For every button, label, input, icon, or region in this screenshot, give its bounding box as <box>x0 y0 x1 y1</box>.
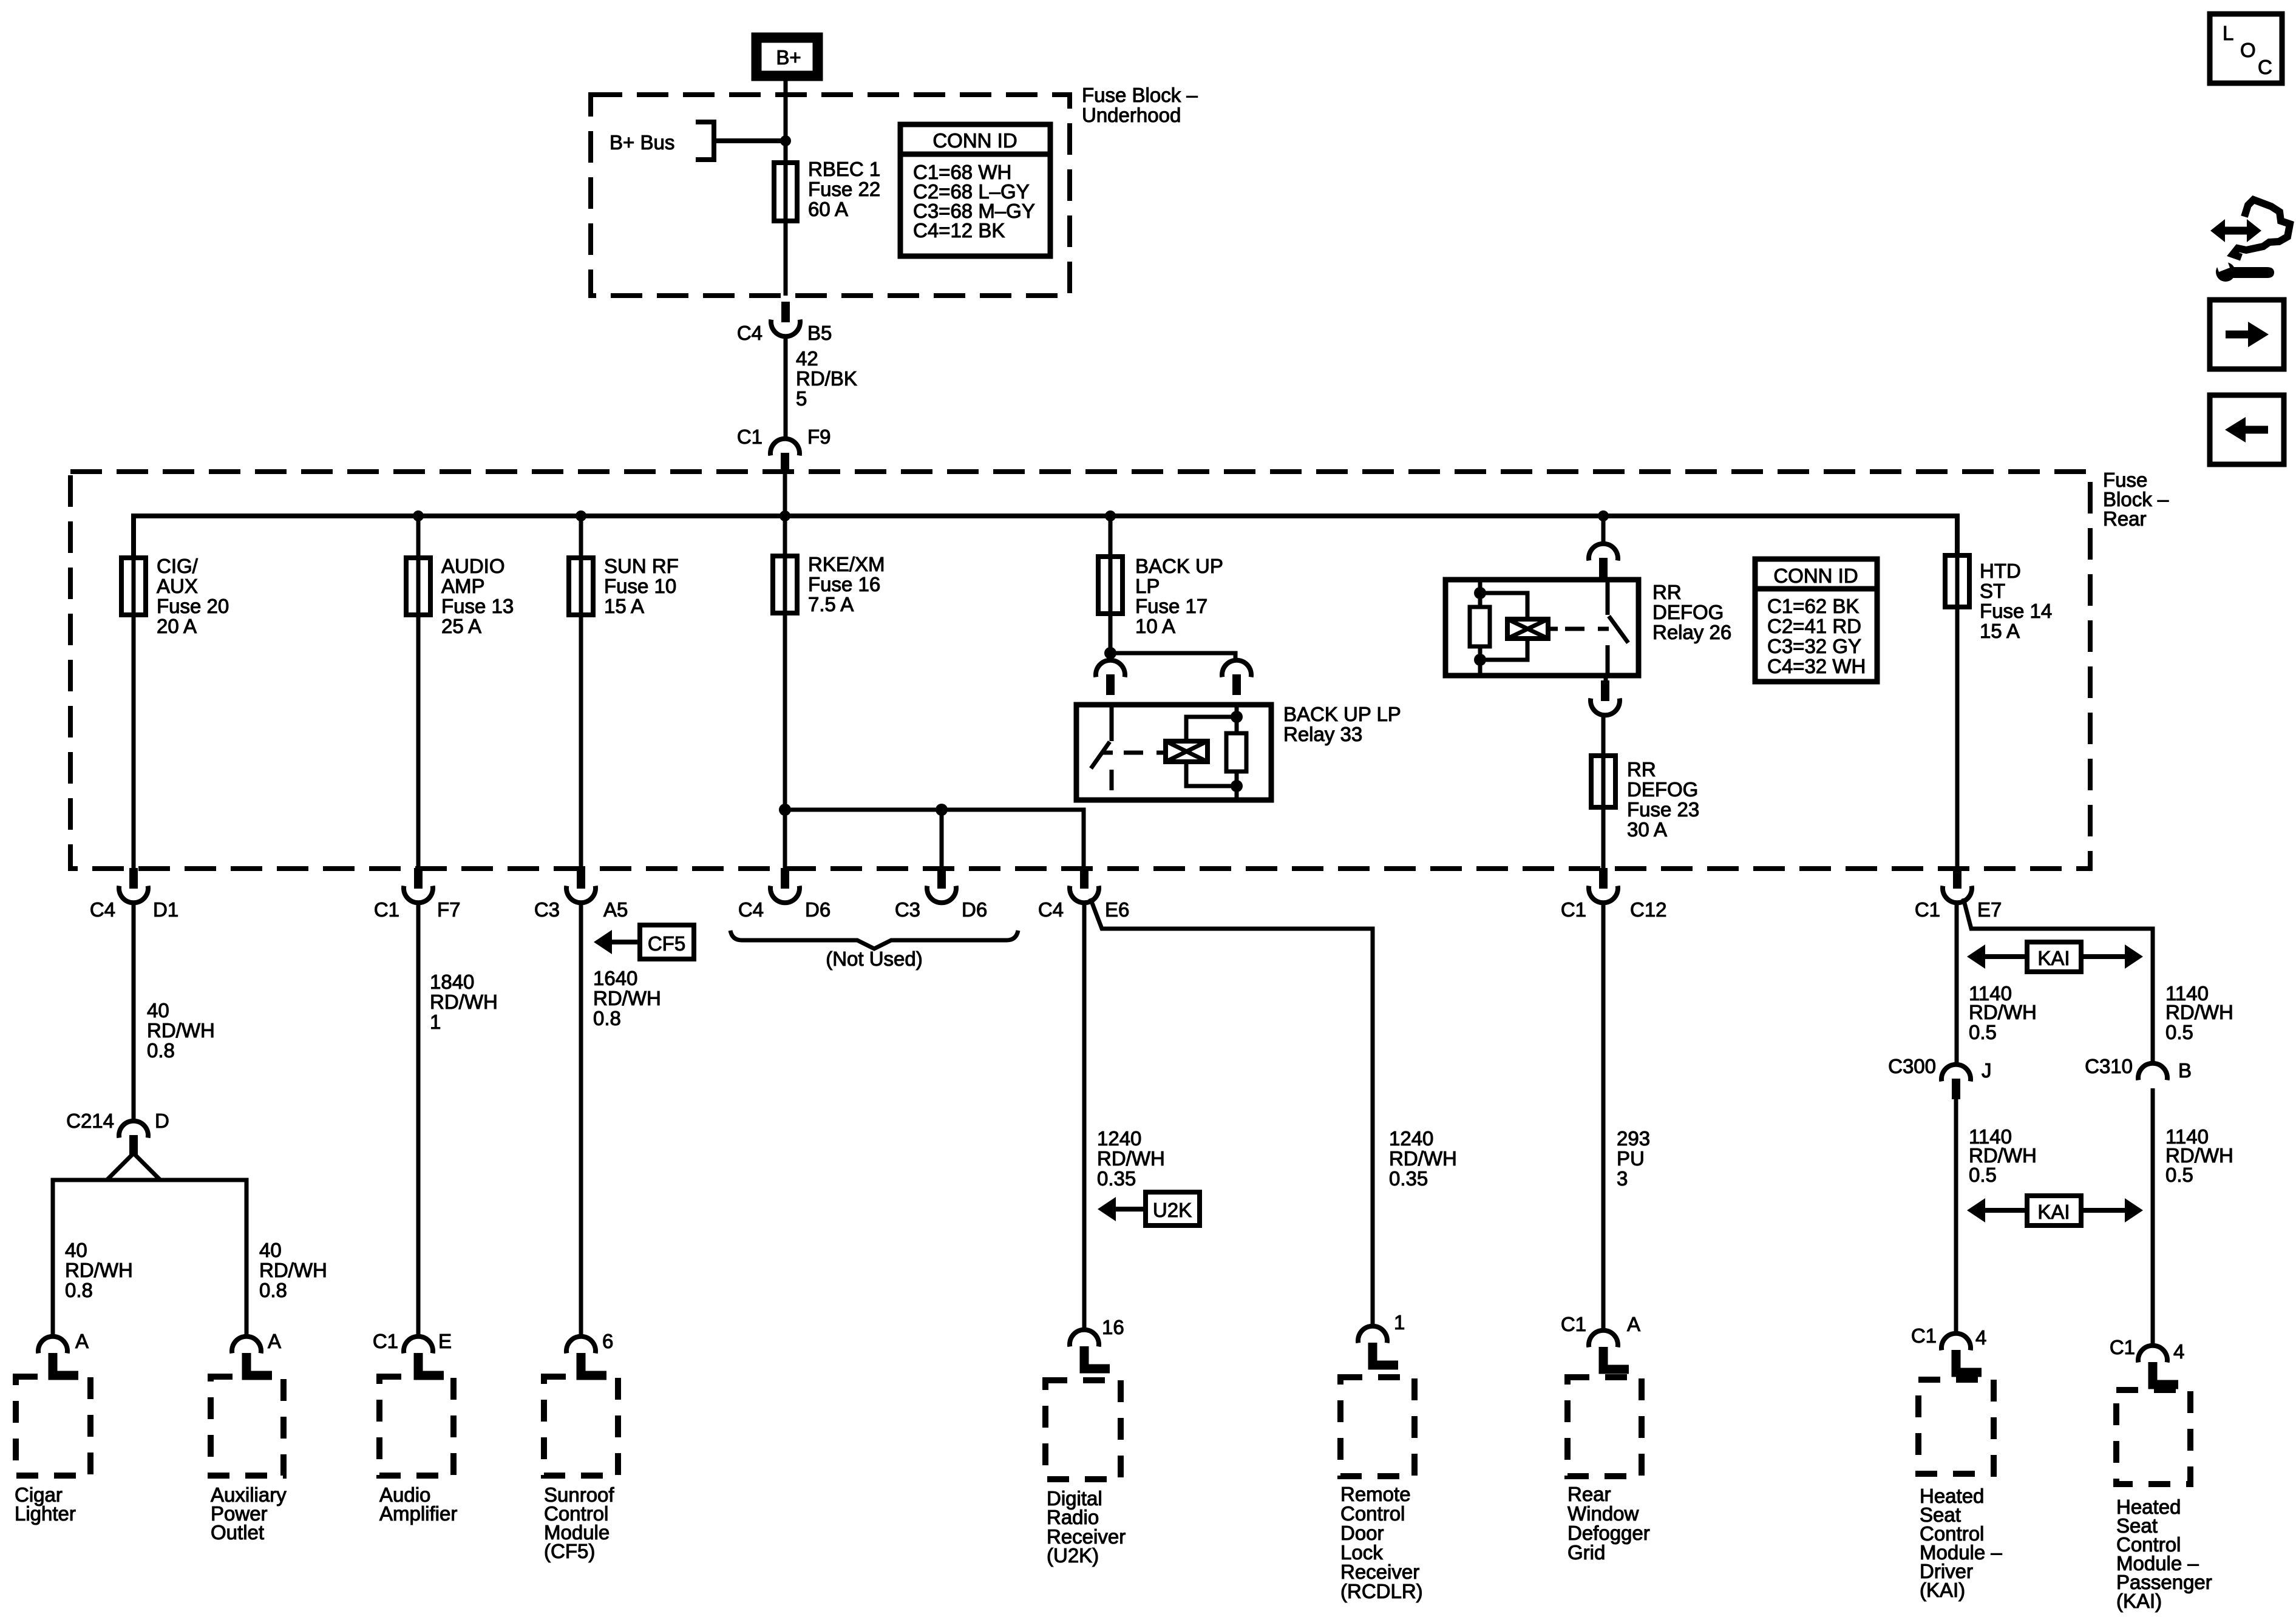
svg-text:AUDIO: AUDIO <box>441 555 505 577</box>
svg-text:KAI: KAI <box>2037 947 2070 969</box>
svg-text:Fuse 16: Fuse 16 <box>808 573 880 595</box>
svg-text:PU: PU <box>1617 1147 1645 1170</box>
svg-text:Fuse 23: Fuse 23 <box>1627 798 1699 821</box>
svg-text:RD/WH: RD/WH <box>259 1259 327 1281</box>
svg-text:HTD: HTD <box>1980 560 2021 582</box>
svg-text:AMP: AMP <box>441 575 485 597</box>
svg-text:ST: ST <box>1980 580 2005 602</box>
svg-text:7.5 A: 7.5 A <box>808 593 854 615</box>
svg-text:CONN ID: CONN ID <box>932 129 1017 152</box>
svg-text:A: A <box>75 1330 89 1352</box>
svg-text:A: A <box>268 1330 281 1352</box>
svg-text:Relay 26: Relay 26 <box>1652 621 1731 643</box>
svg-text:Fuse 13: Fuse 13 <box>441 595 514 617</box>
svg-text:3: 3 <box>1617 1167 1628 1190</box>
svg-text:RD/WH: RD/WH <box>430 991 498 1013</box>
svg-text:Grid: Grid <box>1567 1541 1605 1564</box>
svg-text:C1=62 BK: C1=62 BK <box>1767 595 1859 617</box>
svg-text:C4=12 BK: C4=12 BK <box>913 219 1005 242</box>
svg-text:E: E <box>438 1330 452 1352</box>
svg-text:15 A: 15 A <box>604 595 644 617</box>
svg-text:(RCDLR): (RCDLR) <box>1340 1580 1423 1602</box>
svg-text:5: 5 <box>796 387 807 410</box>
svg-text:0.8: 0.8 <box>147 1039 175 1062</box>
svg-text:Fuse 20: Fuse 20 <box>157 595 229 617</box>
svg-text:Fuse Block –: Fuse Block – <box>1082 84 1198 106</box>
svg-text:C300: C300 <box>1888 1055 1936 1077</box>
svg-text:D: D <box>155 1110 169 1132</box>
svg-text:Fuse 10: Fuse 10 <box>604 575 676 597</box>
svg-text:B+ Bus: B+ Bus <box>610 131 674 154</box>
svg-text:4: 4 <box>2173 1340 2184 1363</box>
svg-text:C1: C1 <box>1561 898 1586 921</box>
svg-text:(KAI): (KAI) <box>2116 1590 2162 1612</box>
svg-text:C1: C1 <box>1911 1324 1937 1347</box>
svg-text:RD/WH: RD/WH <box>2165 1001 2233 1023</box>
svg-text:1240: 1240 <box>1097 1127 1141 1150</box>
svg-text:RD/WH: RD/WH <box>1969 1001 2037 1023</box>
svg-text:L: L <box>2223 22 2233 44</box>
svg-text:C1: C1 <box>1915 898 1940 921</box>
svg-text:RBEC 1: RBEC 1 <box>808 158 880 180</box>
svg-text:RD/WH: RD/WH <box>147 1019 215 1042</box>
svg-text:0.5: 0.5 <box>1969 1164 1997 1186</box>
svg-text:A5: A5 <box>603 898 628 921</box>
svg-text:C4=32 WH: C4=32 WH <box>1767 655 1866 677</box>
svg-text:C4: C4 <box>737 322 763 344</box>
svg-text:Underhood: Underhood <box>1082 104 1181 126</box>
svg-text:Rear: Rear <box>2103 507 2147 530</box>
svg-text:AUX: AUX <box>157 575 198 597</box>
svg-text:C4: C4 <box>738 898 764 921</box>
svg-text:4: 4 <box>1975 1326 1986 1349</box>
svg-text:0.8: 0.8 <box>65 1279 93 1301</box>
svg-text:C1: C1 <box>373 1330 398 1352</box>
svg-text:C1: C1 <box>374 898 399 921</box>
svg-text:D1: D1 <box>153 898 178 921</box>
svg-text:25 A: 25 A <box>441 615 481 637</box>
svg-text:D6: D6 <box>962 898 987 921</box>
svg-text:RD/WH: RD/WH <box>593 987 661 1009</box>
svg-text:BACK UP: BACK UP <box>1135 555 1223 577</box>
svg-text:A: A <box>1627 1313 1640 1335</box>
svg-text:DEFOG: DEFOG <box>1627 778 1698 801</box>
svg-text:1: 1 <box>1394 1311 1405 1334</box>
svg-text:C214: C214 <box>66 1110 114 1132</box>
svg-text:40: 40 <box>259 1239 282 1261</box>
svg-text:C1: C1 <box>737 425 763 448</box>
svg-text:F7: F7 <box>437 898 461 921</box>
svg-text:RR: RR <box>1652 581 1682 603</box>
svg-text:(U2K): (U2K) <box>1047 1544 1099 1567</box>
svg-text:BACK UP LP: BACK UP LP <box>1283 703 1401 725</box>
svg-text:Outlet: Outlet <box>211 1521 264 1544</box>
svg-text:E6: E6 <box>1105 898 1129 921</box>
svg-text:KAI: KAI <box>2037 1201 2070 1223</box>
svg-text:C4: C4 <box>1038 898 1064 921</box>
svg-text:40: 40 <box>65 1239 87 1261</box>
svg-text:RD/WH: RD/WH <box>1389 1147 1457 1170</box>
svg-text:C1: C1 <box>2110 1336 2135 1358</box>
svg-text:B: B <box>2178 1059 2192 1082</box>
svg-text:C3: C3 <box>895 898 920 921</box>
svg-text:C310: C310 <box>2085 1055 2133 1077</box>
svg-text:42: 42 <box>796 347 818 370</box>
svg-text:293: 293 <box>1617 1127 1650 1150</box>
svg-text:Fuse 17: Fuse 17 <box>1135 595 1207 617</box>
svg-text:15 A: 15 A <box>1980 620 2020 642</box>
svg-text:CONN ID: CONN ID <box>1773 564 1858 587</box>
svg-text:B+: B+ <box>776 46 801 69</box>
svg-text:C4: C4 <box>90 898 115 921</box>
svg-text:RD/WH: RD/WH <box>65 1259 133 1281</box>
svg-text:C: C <box>2258 56 2272 78</box>
svg-text:C12: C12 <box>1630 898 1667 921</box>
svg-text:RR: RR <box>1627 758 1656 781</box>
svg-text:0.8: 0.8 <box>593 1007 621 1029</box>
svg-text:C2=41 RD: C2=41 RD <box>1767 615 1861 637</box>
svg-text:1240: 1240 <box>1389 1127 1433 1150</box>
svg-text:Relay 33: Relay 33 <box>1283 723 1362 745</box>
svg-text:J: J <box>1982 1059 1992 1082</box>
svg-text:Fuse 14: Fuse 14 <box>1980 600 2052 622</box>
svg-text:60 A: 60 A <box>808 198 848 220</box>
svg-text:6: 6 <box>602 1330 613 1352</box>
svg-text:1640: 1640 <box>593 967 637 989</box>
svg-text:Amplifier: Amplifier <box>379 1502 457 1525</box>
svg-text:RKE/XM: RKE/XM <box>808 553 885 575</box>
svg-text:10 A: 10 A <box>1135 615 1175 637</box>
svg-text:C3: C3 <box>534 898 560 921</box>
svg-text:1: 1 <box>430 1011 441 1033</box>
svg-text:(KAI): (KAI) <box>1920 1579 1965 1601</box>
svg-text:RD/BK: RD/BK <box>796 367 857 390</box>
svg-text:(Not Used): (Not Used) <box>826 947 923 970</box>
svg-text:LP: LP <box>1135 575 1160 597</box>
svg-text:E7: E7 <box>1977 898 2002 921</box>
svg-text:CIG/: CIG/ <box>157 555 199 577</box>
svg-text:U2K: U2K <box>1153 1199 1192 1221</box>
svg-text:O: O <box>2240 39 2256 61</box>
svg-text:0.35: 0.35 <box>1389 1167 1428 1190</box>
svg-text:(CF5): (CF5) <box>544 1540 595 1562</box>
svg-text:0.8: 0.8 <box>259 1279 287 1301</box>
svg-text:16: 16 <box>1102 1316 1124 1338</box>
svg-text:SUN RF: SUN RF <box>604 555 679 577</box>
svg-text:0.5: 0.5 <box>2165 1164 2193 1186</box>
svg-text:0.5: 0.5 <box>1969 1021 1997 1043</box>
svg-text:Lighter: Lighter <box>15 1502 76 1525</box>
svg-text:C3=32 GY: C3=32 GY <box>1767 635 1861 657</box>
svg-text:1840: 1840 <box>430 971 474 993</box>
svg-text:Fuse 22: Fuse 22 <box>808 178 880 200</box>
svg-text:F9: F9 <box>807 425 831 448</box>
svg-text:D6: D6 <box>805 898 830 921</box>
svg-text:0.5: 0.5 <box>2165 1021 2193 1043</box>
svg-text:RD/WH: RD/WH <box>1097 1147 1165 1170</box>
svg-text:0.35: 0.35 <box>1097 1167 1136 1190</box>
svg-text:B5: B5 <box>807 322 832 344</box>
svg-text:30 A: 30 A <box>1627 818 1667 841</box>
svg-text:20 A: 20 A <box>157 615 197 637</box>
svg-text:C1: C1 <box>1561 1313 1586 1335</box>
svg-text:DEFOG: DEFOG <box>1652 601 1724 623</box>
svg-text:40: 40 <box>147 999 169 1022</box>
svg-text:CF5: CF5 <box>648 932 685 955</box>
